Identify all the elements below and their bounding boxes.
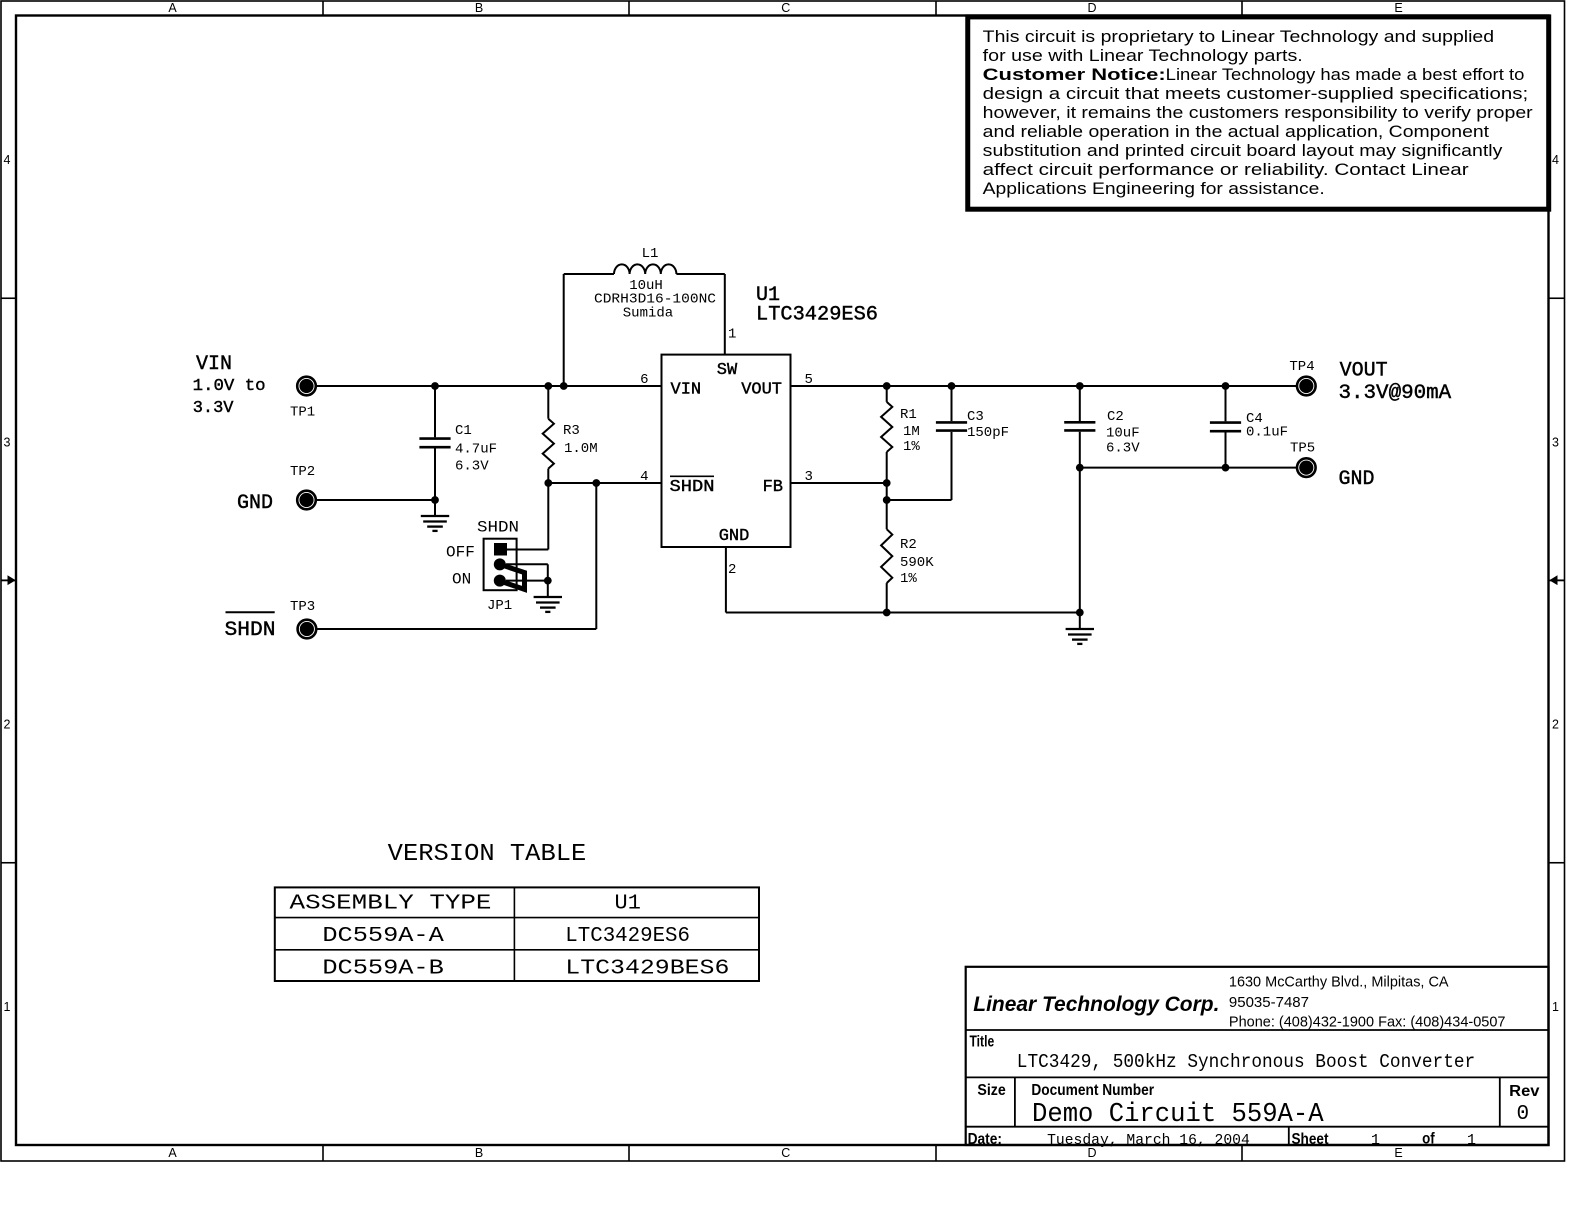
junction dots TP5 wire xyxy=(1076,464,1230,472)
wire FB net: U1 pin 3 to R1/R2 xyxy=(791,482,887,484)
svg-text:95035-7487: 95035-7487 xyxy=(1229,994,1309,1011)
svg-text:1: 1 xyxy=(1467,1132,1476,1149)
svg-text:6: 6 xyxy=(640,372,648,388)
wire L1 left leg xyxy=(564,274,614,386)
svg-text:L1: L1 xyxy=(642,246,659,262)
svg-text:VOUT: VOUT xyxy=(1340,359,1388,382)
svg-text:6.3V: 6.3V xyxy=(1106,441,1140,457)
svg-text:Tuesday, March 16, 2004: Tuesday, March 16, 2004 xyxy=(1047,1132,1250,1149)
pin 2 GND xyxy=(728,562,736,578)
svg-text:DC559A-A: DC559A-A xyxy=(322,925,444,948)
svg-text:This circuit is proprietary to: This circuit is proprietary to Linear Te… xyxy=(983,27,1494,46)
svg-text:3: 3 xyxy=(1552,435,1559,449)
svg-text:0: 0 xyxy=(1517,1103,1530,1126)
company name xyxy=(973,993,1219,1016)
svg-text:GND: GND xyxy=(237,492,273,515)
ground under C2 rail xyxy=(1066,613,1094,644)
capacitor C3 xyxy=(936,386,1009,500)
junction dot TP2/C1 xyxy=(431,496,439,504)
size / document number / rev xyxy=(977,1082,1540,1130)
svg-text:10uF: 10uF xyxy=(1106,426,1140,442)
svg-text:2: 2 xyxy=(728,562,736,578)
svg-text:E: E xyxy=(1394,1146,1402,1160)
capacitor C4 xyxy=(1210,386,1288,468)
ground under JP1 xyxy=(534,581,562,612)
svg-text:1: 1 xyxy=(1552,1000,1559,1014)
wire U1 pin 2 to ground rail xyxy=(726,547,1080,613)
svg-text:SHDN: SHDN xyxy=(670,478,715,497)
svg-text:C: C xyxy=(781,1146,790,1160)
node SHDN label xyxy=(225,612,276,642)
svg-text:R3: R3 xyxy=(563,423,580,439)
wire VOUT net: U1 pin 5 to TP4 xyxy=(791,385,1298,387)
svg-text:LTC3429ES6: LTC3429ES6 xyxy=(756,304,878,327)
svg-text:TP1: TP1 xyxy=(290,405,315,421)
title block xyxy=(966,967,1549,1145)
svg-text:LTC3429ES6: LTC3429ES6 xyxy=(565,925,690,948)
svg-text:VOUT: VOUT xyxy=(741,381,782,400)
right centre arrow xyxy=(1549,575,1564,585)
node VIN label xyxy=(193,353,266,418)
junction dots ground rail xyxy=(883,609,1084,617)
resistor R2 xyxy=(881,500,934,613)
svg-text:TP4: TP4 xyxy=(1289,359,1314,375)
svg-text:Size: Size xyxy=(977,1082,1006,1099)
test point TP5 xyxy=(1290,441,1316,477)
test point TP1 xyxy=(290,377,316,421)
svg-text:VIN: VIN xyxy=(671,381,702,400)
svg-text:ASSEMBLY TYPE: ASSEMBLY TYPE xyxy=(290,893,492,916)
capacitor C2 xyxy=(1064,386,1140,613)
version table xyxy=(275,841,759,981)
pin 4 SHDN xyxy=(640,469,648,485)
svg-text:ON: ON xyxy=(452,571,471,589)
svg-text:C3: C3 xyxy=(967,409,984,425)
svg-text:VERSION TABLE: VERSION TABLE xyxy=(388,841,587,868)
wire SHDN net: R3 to U1 pin 4 xyxy=(548,482,661,484)
svg-text:DC559A-B: DC559A-B xyxy=(322,958,443,981)
pin 3 FB xyxy=(805,469,813,485)
svg-text:Demo Circuit 559A-A: Demo Circuit 559A-A xyxy=(1032,1100,1324,1130)
svg-text:1%: 1% xyxy=(900,571,917,587)
svg-text:5: 5 xyxy=(805,372,813,388)
resistor R3 xyxy=(543,386,598,483)
svg-text:LTC3429, 500kHz Synchronous Bo: LTC3429, 500kHz Synchronous Boost Conver… xyxy=(1017,1051,1475,1073)
svg-text:1M: 1M xyxy=(903,424,920,440)
svg-text:Rev: Rev xyxy=(1509,1083,1540,1100)
svg-text:6.3V: 6.3V xyxy=(455,459,489,475)
company address xyxy=(1229,974,1506,1031)
svg-text:R1: R1 xyxy=(900,407,917,423)
node GND label (right) xyxy=(1339,468,1375,491)
svg-text:LTC3429BES6: LTC3429BES6 xyxy=(565,958,729,981)
resistor R1 xyxy=(881,386,920,500)
wire R3 bottom to JP1 pin 1 xyxy=(507,483,548,550)
wire C3 bottom to FB divider xyxy=(887,499,952,501)
svg-text:4: 4 xyxy=(4,153,11,167)
svg-text:SW: SW xyxy=(717,361,738,380)
pin 1 SW xyxy=(728,327,736,343)
date / sheet row xyxy=(968,1131,1476,1150)
svg-text:C1: C1 xyxy=(455,423,472,439)
left centre arrow xyxy=(1,575,16,585)
svg-text:Date:: Date: xyxy=(968,1131,1002,1148)
svg-text:B: B xyxy=(475,1,483,15)
svg-text:R2: R2 xyxy=(900,537,917,553)
svg-text:however, it remains the custom: however, it remains the customers respon… xyxy=(983,103,1533,122)
svg-text:TP3: TP3 xyxy=(290,599,315,615)
capacitor C1 xyxy=(419,386,497,500)
wire L1 right leg to U1 pin 1 xyxy=(676,274,724,355)
svg-text:150pF: 150pF xyxy=(967,425,1009,441)
svg-text:OFF: OFF xyxy=(446,544,475,562)
wire SHDN net vertical to TP3 wire xyxy=(595,483,597,629)
svg-text:U1: U1 xyxy=(615,893,641,916)
svg-text:VIN: VIN xyxy=(196,353,232,376)
jumper shunt on JP1 xyxy=(500,564,525,589)
wire C2 to TP5 ground wire xyxy=(1080,467,1297,469)
svg-text:FB: FB xyxy=(763,478,783,497)
svg-text:Document Number: Document Number xyxy=(1031,1082,1154,1099)
svg-text:GND: GND xyxy=(1339,468,1375,491)
svg-text:Sheet: Sheet xyxy=(1292,1131,1329,1148)
svg-text:of: of xyxy=(1422,1131,1435,1148)
svg-text:D: D xyxy=(1087,1,1096,15)
svg-text:4: 4 xyxy=(1552,153,1559,167)
pin 5 VOUT xyxy=(805,372,813,388)
svg-text:and reliable operation in the: and reliable operation in the actual app… xyxy=(983,122,1490,141)
svg-text:design a circuit that meets cu: design a circuit that meets customer-sup… xyxy=(983,84,1528,103)
svg-text:4.7uF: 4.7uF xyxy=(455,442,497,458)
svg-text:2: 2 xyxy=(1552,718,1559,732)
svg-text:3: 3 xyxy=(4,435,11,449)
svg-text:C: C xyxy=(781,1,790,15)
ground under C1 xyxy=(421,500,449,531)
IC U1 LTC3429ES6 xyxy=(662,284,879,547)
svg-text:1: 1 xyxy=(1371,1132,1380,1149)
svg-text:1: 1 xyxy=(4,1000,11,1014)
test point TP2 xyxy=(290,464,316,509)
svg-text:for use with Linear Technology: for use with Linear Technology parts. xyxy=(983,46,1303,65)
customer notice box xyxy=(968,17,1549,209)
svg-text:SHDN: SHDN xyxy=(225,619,276,642)
svg-text:3.3V@90mA: 3.3V@90mA xyxy=(1339,382,1452,405)
svg-text:2: 2 xyxy=(4,718,11,732)
svg-text:Title: Title xyxy=(970,1034,995,1051)
svg-text:0.1uF: 0.1uF xyxy=(1246,425,1288,441)
svg-text:1.0V to: 1.0V to xyxy=(193,377,266,396)
svg-text:A: A xyxy=(168,1146,177,1160)
wire TP2 to C1 xyxy=(316,499,435,501)
svg-text:SHDN: SHDN xyxy=(477,519,519,537)
svg-text:B: B xyxy=(475,1146,483,1160)
test point TP4 xyxy=(1289,359,1315,395)
svg-text:C2: C2 xyxy=(1107,409,1124,425)
inductor L1 xyxy=(594,246,716,322)
svg-text:TP2: TP2 xyxy=(290,464,315,480)
svg-text:JP1: JP1 xyxy=(487,598,512,614)
junction dots VOUT net xyxy=(883,382,1230,390)
svg-text:A: A xyxy=(168,1,177,15)
svg-text:TP5: TP5 xyxy=(1290,441,1315,457)
svg-text:E: E xyxy=(1394,1,1402,15)
title field xyxy=(970,1034,1476,1074)
svg-text:Sumida: Sumida xyxy=(623,306,673,322)
svg-text:Phone: (408)432-1900 Fax: (408: Phone: (408)432-1900 Fax: (408)434-0507 xyxy=(1229,1014,1506,1031)
wire VIN net: TP1 to U1 pin 6 xyxy=(316,385,662,387)
svg-text:Linear Technology Corp.: Linear Technology Corp. xyxy=(973,993,1219,1016)
svg-text:substitution and printed circu: substitution and printed circuit board l… xyxy=(983,141,1503,160)
svg-text:4: 4 xyxy=(640,469,648,485)
svg-text:1630 McCarthy Blvd., Milpitas,: 1630 McCarthy Blvd., Milpitas, CA xyxy=(1229,974,1449,991)
svg-text:Customer Notice:Linear Technol: Customer Notice:Linear Technology has ma… xyxy=(983,65,1525,84)
jumper JP1 xyxy=(446,519,548,615)
node VOUT label xyxy=(1339,359,1452,405)
svg-text:590K: 590K xyxy=(900,555,934,571)
wire TP3 to SHDN vertical xyxy=(316,628,596,630)
junction dots FB net xyxy=(883,479,891,504)
svg-text:3: 3 xyxy=(805,469,813,485)
svg-text:GND: GND xyxy=(719,527,750,546)
junction dot JP1 ground xyxy=(544,577,552,585)
node GND label (left) xyxy=(237,492,273,515)
svg-text:affect circuit performance or: affect circuit performance or reliabilit… xyxy=(983,160,1469,179)
junction dots VIN net xyxy=(431,382,567,390)
svg-text:Applications Engineering for a: Applications Engineering for assistance. xyxy=(983,179,1325,198)
svg-text:1.0M: 1.0M xyxy=(564,441,598,457)
junction dots SHDN net xyxy=(544,479,600,487)
test point TP3 xyxy=(290,599,316,638)
pin 6 VIN xyxy=(640,372,648,388)
svg-text:1: 1 xyxy=(728,327,736,343)
svg-text:1%: 1% xyxy=(903,439,920,455)
svg-text:3.3V: 3.3V xyxy=(193,399,235,418)
